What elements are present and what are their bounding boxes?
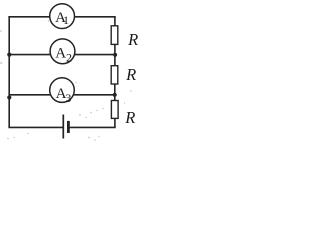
wire A2 left segment <box>9 54 51 56</box>
wire right rail top (A1 corner to R1) <box>114 17 116 26</box>
svg-text:A: A <box>55 46 66 62</box>
node dot right A2 <box>113 53 117 57</box>
svg-text:R: R <box>125 65 136 84</box>
ammeter A1 <box>50 4 75 29</box>
svg-text:1: 1 <box>63 13 69 27</box>
ammeter A2 <box>50 39 75 64</box>
wire A3 left segment <box>9 94 51 96</box>
wire R3 down to bottom corner <box>114 118 116 127</box>
resistor R1 <box>111 26 138 49</box>
battery cell: short thick plate <box>67 121 70 133</box>
svg-text:2: 2 <box>66 50 72 64</box>
wire bottom-left segment <box>8 126 63 128</box>
wire A2 right segment <box>75 54 115 56</box>
node dot left A2 <box>7 53 11 57</box>
node dot left A3 <box>7 95 11 99</box>
node dot right A3 <box>113 93 117 97</box>
wire top-right segment <box>74 16 115 18</box>
svg-text:R: R <box>127 30 138 49</box>
resistor R3 <box>111 101 135 128</box>
wire R2 to R3 through node <box>114 84 116 101</box>
wire R1 to R2 through node <box>114 44 116 66</box>
svg-text:R: R <box>124 108 135 127</box>
wire left rail <box>8 16 10 127</box>
resistor R2 <box>111 65 136 84</box>
battery cell: long plate <box>62 115 64 139</box>
wire bottom-right segment <box>69 126 116 128</box>
wire A3 right segment <box>74 94 115 96</box>
ammeter A3 <box>50 78 75 105</box>
svg-text:3: 3 <box>65 91 71 105</box>
wire top-left segment <box>8 16 50 18</box>
